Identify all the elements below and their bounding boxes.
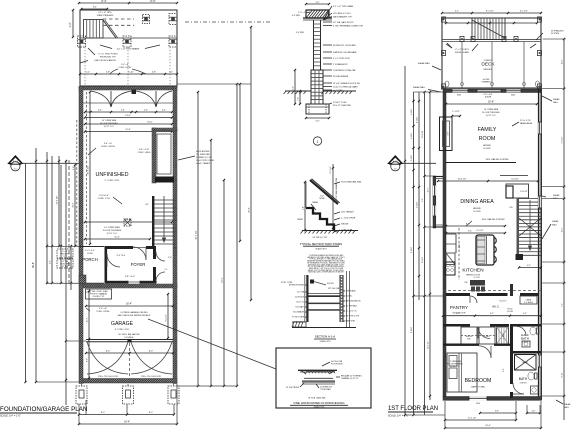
svg-text:9'-0": 9'-0" <box>468 231 472 233</box>
svg-text:8'-4": 8'-4" <box>101 0 106 3</box>
svg-text:CONC WALL: CONC WALL <box>294 321 304 324</box>
svg-text:9'-2": 9'-2" <box>50 260 52 264</box>
svg-text:FOYER: FOYER <box>131 262 146 267</box>
svg-text:@ 16" OC: @ 16" OC <box>296 302 305 304</box>
svg-text:7'-2": 7'-2" <box>562 303 564 307</box>
svg-text:10'-2 1/2": 10'-2 1/2" <box>428 341 430 349</box>
svg-text:ONE HOUR RATED FLOOR/CEILIN: ONE HOUR RATED FLOOR/CEILING <box>293 401 345 405</box>
svg-text:36'-4 1/2": 36'-4 1/2" <box>196 230 198 239</box>
svg-text:11'-0": 11'-0" <box>114 237 120 239</box>
svg-text:1ST FLOOR PLAN: 1ST FLOOR PLAN <box>388 406 438 412</box>
svg-text:16'-4": 16'-4" <box>126 303 132 306</box>
svg-text:TILE FLR: TILE FLR <box>522 342 530 344</box>
svg-text:ROOM: ROOM <box>479 136 496 142</box>
svg-text:7'-6 1/2": 7'-6 1/2" <box>417 201 419 208</box>
svg-text:PANTRY: PANTRY <box>450 305 468 310</box>
svg-text:& TWO PER/BEAM CONNECTOR: & TWO PER/BEAM CONNECTOR <box>333 24 363 27</box>
svg-text:16'-0": 16'-0" <box>147 122 152 124</box>
svg-text:CONC. LNDG: CONC. LNDG <box>138 152 151 154</box>
svg-text:16'-1": 16'-1" <box>428 187 430 192</box>
svg-text:FLOOR: FLOOR <box>483 148 491 150</box>
svg-text:17'-1 1/2": 17'-1 1/2" <box>468 418 477 420</box>
svg-text:DW: DW <box>465 282 468 284</box>
svg-text:8'-6 1/2": 8'-6 1/2" <box>499 301 506 303</box>
svg-text:8'-1 1/2": 8'-1 1/2" <box>411 326 413 333</box>
svg-text:2'-0": 2'-0" <box>316 2 320 4</box>
svg-text:w/ (4) #5's VERTICAL BARS: w/ (4) #5's VERTICAL BARS <box>333 85 358 88</box>
svg-text:5'-8": 5'-8" <box>106 72 110 74</box>
svg-text:5'-8": 5'-8" <box>152 72 156 74</box>
svg-text:5'-5": 5'-5" <box>523 313 527 315</box>
svg-text:2'-2": 2'-2" <box>86 72 90 74</box>
svg-text:TYPICAL SECTION THRU STAIRS: TYPICAL SECTION THRU STAIRS <box>300 242 342 246</box>
svg-text:5'-4": 5'-4" <box>98 110 102 112</box>
svg-text:1/2" DRYWALL: 1/2" DRYWALL <box>346 305 358 308</box>
svg-text:8'W x 7'H O.H.DOOR: 8'W x 7'H O.H.DOOR <box>98 376 118 378</box>
svg-text:6'-2": 6'-2" <box>527 265 531 267</box>
svg-text:ROUND PVT. 2X6 PLANS: ROUND PVT. 2X6 PLANS <box>333 44 356 47</box>
svg-text:5/8" TYPE X GYP: 5/8" TYPE X GYP <box>346 316 361 318</box>
svg-text:BEDROOM: BEDROOM <box>465 378 492 384</box>
svg-text:16'-4": 16'-4" <box>124 422 130 424</box>
svg-text:SCALE: NTS: SCALE: NTS <box>314 406 325 409</box>
svg-text:1'-0": 1'-0" <box>298 97 300 101</box>
svg-text:4'-1 1/2": 4'-1 1/2" <box>476 230 483 232</box>
svg-text:14'-0": 14'-0" <box>125 115 131 117</box>
svg-text:DECK: DECK <box>481 62 495 68</box>
svg-text:FLOOR: FLOOR <box>473 211 481 213</box>
svg-text:SLIDER: SLIDER <box>485 97 492 99</box>
svg-text:3050: 3050 <box>511 95 515 97</box>
svg-text:14" OPEN WEB: 14" OPEN WEB <box>104 227 120 229</box>
svg-text:@ 16" O.C.: @ 16" O.C. <box>104 126 115 128</box>
svg-text:4'-0" x 8": 4'-0" x 8" <box>99 308 107 310</box>
svg-text:GYP BOARD: GYP BOARD <box>346 290 357 293</box>
svg-text:4" CONC. FLR.: 4" CONC. FLR. <box>115 329 130 331</box>
svg-text:3050: 3050 <box>457 95 461 97</box>
svg-text:10'-2": 10'-2" <box>87 317 89 322</box>
svg-text:36"H. RAILING SYSTEM: 36"H. RAILING SYSTEM <box>482 218 505 221</box>
svg-text:FTG. 12" DEEP MIN: FTG. 12" DEEP MIN <box>333 105 351 107</box>
svg-text:2'-0": 2'-0" <box>315 121 320 123</box>
svg-text:6" x 6" TRTD POSTS: 6" x 6" TRTD POSTS <box>98 54 118 56</box>
svg-text:BATT INSULATION: BATT INSULATION <box>346 300 362 303</box>
svg-text:DOORS, TYP.: DOORS, TYP. <box>93 296 105 298</box>
svg-text:9'-1 1/2": 9'-1 1/2" <box>411 246 413 253</box>
svg-text:CONC. FTG.: CONC. FTG. <box>98 198 111 200</box>
svg-text:NATURAL GAS & LP APPLIANCES 18: NATURAL GAS & LP APPLIANCES 18" ABOVE <box>308 271 344 274</box>
svg-text:1" EXPANSION?: 1" EXPANSION? <box>333 63 348 66</box>
svg-text:14'-0": 14'-0" <box>125 219 131 222</box>
svg-text:SYP JAYS & 4" GLV: SYP JAYS & 4" GLV <box>333 12 351 15</box>
svg-text:5'-4": 5'-4" <box>162 110 166 112</box>
svg-text:UP 13R @ 7 3/4": UP 13R @ 7 3/4" <box>313 237 328 239</box>
svg-text:WALL: WALL <box>552 224 557 227</box>
svg-text:R-13 BATT: R-13 BATT <box>296 306 305 309</box>
svg-text:SECTION A-1-A: SECTION A-1-A <box>315 335 335 339</box>
svg-text:8'-0": 8'-0" <box>106 351 111 353</box>
svg-text:SHEAR: SHEAR <box>564 403 571 406</box>
svg-text:C.J. @ 16" OC: C.J. @ 16" OC <box>346 311 358 313</box>
svg-text:36'-8": 36'-8" <box>249 207 251 213</box>
svg-text:STONE VENEER: STONE VENEER <box>333 76 349 78</box>
svg-text:4'-0" x 4'-0": 4'-0" x 4'-0" <box>85 250 95 252</box>
svg-text:1'-1 1/2": 1'-1 1/2" <box>452 111 460 113</box>
svg-text:DOUBLE: DOUBLE <box>125 337 134 339</box>
svg-text:9'-0": 9'-0" <box>466 224 470 226</box>
svg-text:FLOOR: FLOOR <box>507 311 513 313</box>
svg-text:16' GRG. BM. ABOVE: 16' GRG. BM. ABOVE <box>118 333 140 336</box>
svg-text:CHANNEL @ 16" OC: CHANNEL @ 16" OC <box>341 377 359 380</box>
svg-text:NOTE: TYVEK: NOTE: TYVEK <box>281 282 293 284</box>
svg-text:w/ #2 TIES: w/ #2 TIES <box>333 90 343 92</box>
svg-text:16'-2": 16'-2" <box>562 227 564 232</box>
svg-text:UL FILE # AND SIM.: UL FILE # AND SIM. <box>308 397 326 400</box>
svg-text:HRDWD: HRDWD <box>483 145 491 147</box>
svg-text:SHELF &: SHELF & <box>466 336 474 338</box>
svg-text:2x12 TREADS: 2x12 TREADS <box>341 211 354 214</box>
svg-text:4'-1 1/2": 4'-1 1/2" <box>503 332 505 339</box>
svg-text:2" CONC. FLR.: 2" CONC. FLR. <box>105 180 120 182</box>
svg-text:PARALLAM BM: PARALLAM BM <box>520 122 533 125</box>
svg-text:4'-0": 4'-0" <box>69 22 72 27</box>
svg-text:5'-4": 5'-4" <box>121 110 125 112</box>
svg-text:HRDWD: HRDWD <box>473 208 481 210</box>
svg-text:CONC. LNTEL: CONC. LNTEL <box>119 67 133 69</box>
svg-text:FROM BLW, TYP.: FROM BLW, TYP. <box>100 57 117 59</box>
svg-text:10'-3 1/2": 10'-3 1/2" <box>458 179 467 181</box>
svg-text:3'-4" x 8": 3'-4" x 8" <box>104 143 113 145</box>
svg-text:8'-0": 8'-0" <box>150 0 155 3</box>
svg-text:UNFINISHED: UNFINISHED <box>96 172 129 178</box>
svg-text:SCALE: NTS: SCALE: NTS <box>320 340 331 343</box>
svg-text:SCALE: 1/4" = 1'-0": SCALE: 1/4" = 1'-0" <box>0 415 21 418</box>
svg-text:1/2" OSB: 1/2" OSB <box>297 292 305 294</box>
svg-text:STAIR STRINGERS: STAIR STRINGERS <box>97 14 114 17</box>
svg-text:5'-8" x 6'-0": 5'-8" x 6'-0" <box>125 276 136 278</box>
svg-text:8'W x 7'H O.H.DOOR: 8'W x 7'H O.H.DOOR <box>141 376 161 378</box>
svg-text:SHEAR WALL: SHEAR WALL <box>418 62 431 65</box>
svg-text:9'-0 1/2": 9'-0 1/2" <box>166 314 168 321</box>
svg-text:3'-1 1/2": 3'-1 1/2" <box>411 154 413 161</box>
svg-text:SYSTEM: SYSTEM <box>551 33 559 35</box>
svg-text:NOSE: NOSE <box>319 198 325 200</box>
svg-text:4-2" x 12" TRTD: 4-2" x 12" TRTD <box>98 12 112 14</box>
svg-text:4'-1 1/2": 4'-1 1/2" <box>411 132 413 139</box>
svg-text:CONC SLAB: CONC SLAB <box>341 229 353 232</box>
svg-text:2'-2": 2'-2" <box>169 72 173 74</box>
svg-text:5'-0": 5'-0" <box>168 257 172 259</box>
svg-text:6" x 6" TRTD POST: 6" x 6" TRTD POST <box>333 58 351 60</box>
svg-text:8'-0" CLG: 8'-0" CLG <box>117 255 126 257</box>
svg-text:4'-1 1/2": 4'-1 1/2" <box>520 11 528 13</box>
svg-text:CONC. LNTEL: CONC. LNTEL <box>101 146 116 148</box>
svg-text:14" OPEN WEB: 14" OPEN WEB <box>102 120 117 122</box>
svg-text:2x4 STUDS: 2x4 STUDS <box>295 297 305 299</box>
svg-text:4'-1 1/2": 4'-1 1/2" <box>411 108 413 115</box>
svg-text:TRIMMERS: TRIMMERS <box>481 82 491 84</box>
svg-text:6'-8": 6'-8" <box>495 411 499 413</box>
svg-text:5'-10": 5'-10" <box>128 72 133 74</box>
svg-text:2 - 2x12 STRGR: 2 - 2x12 STRGR <box>341 218 356 220</box>
svg-text:PT SILL PLATE: PT SILL PLATE <box>292 316 305 319</box>
svg-text:1/2" DIA. GALV. BOLTS: 1/2" DIA. GALV. BOLTS <box>333 21 354 24</box>
svg-text:8'-0": 8'-0" <box>149 351 154 353</box>
svg-text:CONC: CONC <box>87 253 93 255</box>
svg-text:RISER: RISER <box>297 219 303 221</box>
svg-text:8'-4 1/2": 8'-4 1/2" <box>417 116 419 123</box>
svg-text:DN: DN <box>510 207 513 209</box>
svg-text:14" FLR TRUSS: 14" FLR TRUSS <box>286 387 300 389</box>
svg-text:5'-0" SHELF: 5'-0" SHELF <box>524 302 533 304</box>
svg-text:LINEN: LINEN <box>526 300 532 302</box>
svg-text:5'-4": 5'-4" <box>144 110 148 112</box>
svg-text:21'-2 1/2": 21'-2 1/2" <box>57 195 59 204</box>
svg-text:SHEAR: SHEAR <box>553 98 560 101</box>
svg-text:24'-6": 24'-6" <box>222 277 224 283</box>
svg-text:20'-0": 20'-0" <box>73 202 75 207</box>
svg-text:6'-1 1/2": 6'-1 1/2" <box>330 166 332 173</box>
svg-text:2'-10 1/2": 2'-10 1/2" <box>520 191 528 193</box>
svg-text:3'-4": 3'-4" <box>303 206 305 210</box>
svg-text:4'-0": 4'-0" <box>448 131 450 135</box>
svg-text:W.I.C.: W.I.C. <box>492 305 500 309</box>
svg-text:EXTERIOR SIDING: EXTERIOR SIDING <box>289 285 305 287</box>
svg-text:OUTSIDE GARAGE CEILING: OUTSIDE GARAGE CEILING <box>120 311 148 314</box>
svg-text:15'-6": 15'-6" <box>488 101 494 104</box>
svg-text:BATH: BATH <box>521 337 529 341</box>
svg-text:1: 1 <box>317 140 319 144</box>
svg-text:WALL: WALL <box>553 101 558 104</box>
svg-text:FLOOR TRUSSES: FLOOR TRUSSES <box>482 112 500 114</box>
svg-text:3'-0": 3'-0" <box>293 86 295 90</box>
svg-text:2-2x12 TRTD STRGR: 2-2x12 TRTD STRGR <box>196 160 214 162</box>
svg-text:2x4 SILL: 2x4 SILL <box>346 296 353 298</box>
svg-text:15'-8": 15'-8" <box>125 129 130 131</box>
svg-text:3'-0"x3'-0": 3'-0"x3'-0" <box>99 195 109 197</box>
svg-text:@ 16" O.C.: @ 16" O.C. <box>107 233 118 235</box>
svg-text:5'-0" x 3'-8": 5'-0" x 3'-8" <box>139 149 150 151</box>
svg-text:42" MIN: 42" MIN <box>62 266 69 268</box>
svg-text:BATH: BATH <box>519 377 528 381</box>
svg-text:8'-1 1/2": 8'-1 1/2" <box>486 11 494 13</box>
svg-text:FRM BLW: FRM BLW <box>484 69 493 71</box>
svg-text:KITCHEN: KITCHEN <box>462 268 484 274</box>
svg-text:8'-4": 8'-4" <box>93 7 97 9</box>
svg-text:8'-6": 8'-6" <box>503 368 505 372</box>
svg-text:WOOD NATURAL RAIL: WOOD NATURAL RAIL <box>341 181 362 184</box>
svg-text:TILE FLR: TILE FLR <box>520 383 528 385</box>
svg-text:36"H. RAILING SYSTEM: 36"H. RAILING SYSTEM <box>486 158 509 161</box>
svg-text:36'-8": 36'-8" <box>32 262 35 268</box>
svg-text:6'-4": 6'-4" <box>422 198 424 202</box>
svg-text:WALL: WALL <box>564 406 569 409</box>
svg-text:FLOOR DECK: FLOOR DECK <box>331 364 344 366</box>
svg-text:9'-4 1/2": 9'-4 1/2" <box>511 179 519 181</box>
svg-text:FOUNDATION/GARAGE PLAN: FOUNDATION/GARAGE PLAN <box>0 406 87 413</box>
svg-text:WEDGE: WEDGE <box>341 224 349 226</box>
svg-text:SCALE: NTS: SCALE: NTS <box>315 247 327 250</box>
svg-text:CONC. LNTEL: CONC. LNTEL <box>96 311 110 313</box>
svg-text:FAMILY: FAMILY <box>478 127 497 133</box>
svg-text:16'-6": 16'-6" <box>562 59 564 64</box>
svg-text:BASE TRIM: BASE TRIM <box>346 320 356 323</box>
svg-text:4'-0" MIN.: 4'-0" MIN. <box>292 15 301 17</box>
svg-text:3050: 3050 <box>476 403 480 405</box>
svg-text:GARAGE: GARAGE <box>111 321 134 327</box>
svg-text:SILL SEALER: SILL SEALER <box>293 311 304 314</box>
svg-text:4'-0" MIN.: 4'-0" MIN. <box>296 32 305 34</box>
svg-text:8'-0": 8'-0" <box>87 358 89 362</box>
svg-text:4'-0": 4'-0" <box>532 411 536 413</box>
svg-text:8'-1 1/2": 8'-1 1/2" <box>474 277 481 279</box>
svg-text:'X' DRYWALL: 'X' DRYWALL <box>320 388 331 391</box>
svg-text:WOOD: WOOD <box>507 309 513 311</box>
svg-text:SEE ONE HOUR RATING DETAILS: SEE ONE HOUR RATING DETAILS <box>118 314 151 317</box>
svg-text:20'-4": 20'-4" <box>485 425 491 427</box>
svg-text:3'0"x3'0" CONC: 3'0"x3'0" CONC <box>333 102 347 104</box>
svg-text:8'-5 1/2": 8'-5 1/2" <box>422 256 424 263</box>
svg-text:6'-2": 6'-2" <box>490 313 494 315</box>
svg-text:2'-1": 2'-1" <box>455 11 460 13</box>
svg-text:5'-8": 5'-8" <box>456 313 460 315</box>
svg-text:FLOOR TRUSSES: FLOOR TRUSSES <box>103 230 122 232</box>
svg-text:30'-1 1/2": 30'-1 1/2" <box>88 165 90 174</box>
svg-text:5/8" T&G OSB: 5/8" T&G OSB <box>328 288 340 290</box>
svg-text:SHEAR: SHEAR <box>552 220 559 223</box>
svg-text:PORCH: PORCH <box>82 257 98 262</box>
svg-text:10'-1 1/2": 10'-1 1/2" <box>422 130 424 138</box>
svg-text:8'-10": 8'-10" <box>562 372 564 377</box>
svg-text:3 1/2 x 11 7/8: 3 1/2 x 11 7/8 <box>520 120 530 122</box>
svg-text:LINEN: LINEN <box>485 336 491 338</box>
svg-text:@ 16" O.C.: @ 16" O.C. <box>486 115 497 117</box>
svg-text:14" OPEN WEB: 14" OPEN WEB <box>484 109 499 111</box>
svg-text:SIMPSON COLUMN BASE: SIMPSON COLUMN BASE <box>333 51 357 54</box>
svg-text:CARPET & PAD: CARPET & PAD <box>471 386 486 389</box>
svg-text:2-2" x 12" TRTD BEAM: 2-2" x 12" TRTD BEAM <box>333 5 353 8</box>
svg-text:6'-8 1/2" MIN. HEADROOM: 6'-8 1/2" MIN. HEADROOM <box>335 178 338 202</box>
svg-text:FLR FIN: FLR FIN <box>327 283 334 285</box>
svg-text:TREAD: TREAD <box>312 201 319 204</box>
svg-text:LINE OF DECK ABOVE: LINE OF DECK ABOVE <box>94 59 116 62</box>
svg-text:SHWR: SHWR <box>522 362 528 364</box>
svg-text:CL.: CL. <box>164 269 168 271</box>
svg-text:8'-2": 8'-2" <box>149 412 154 414</box>
svg-text:16"x16" CHIMNEY BLOCK FILL: 16"x16" CHIMNEY BLOCK FILL <box>333 83 362 85</box>
svg-text:GALV HANGER, TYP.: GALV HANGER, TYP. <box>333 15 352 18</box>
svg-text:9'-9 1/2": 9'-9 1/2" <box>562 136 564 143</box>
svg-text:TYP.: TYP. <box>63 256 67 258</box>
svg-text:CONCRETE STONE CAP: CONCRETE STONE CAP <box>333 69 356 72</box>
svg-text:SHEAR WALL: SHEAR WALL <box>413 86 426 89</box>
svg-text:8'-2": 8'-2" <box>101 412 106 414</box>
svg-text:SHEAR: SHEAR <box>553 194 560 197</box>
svg-text:DINING AREA: DINING AREA <box>460 199 494 205</box>
